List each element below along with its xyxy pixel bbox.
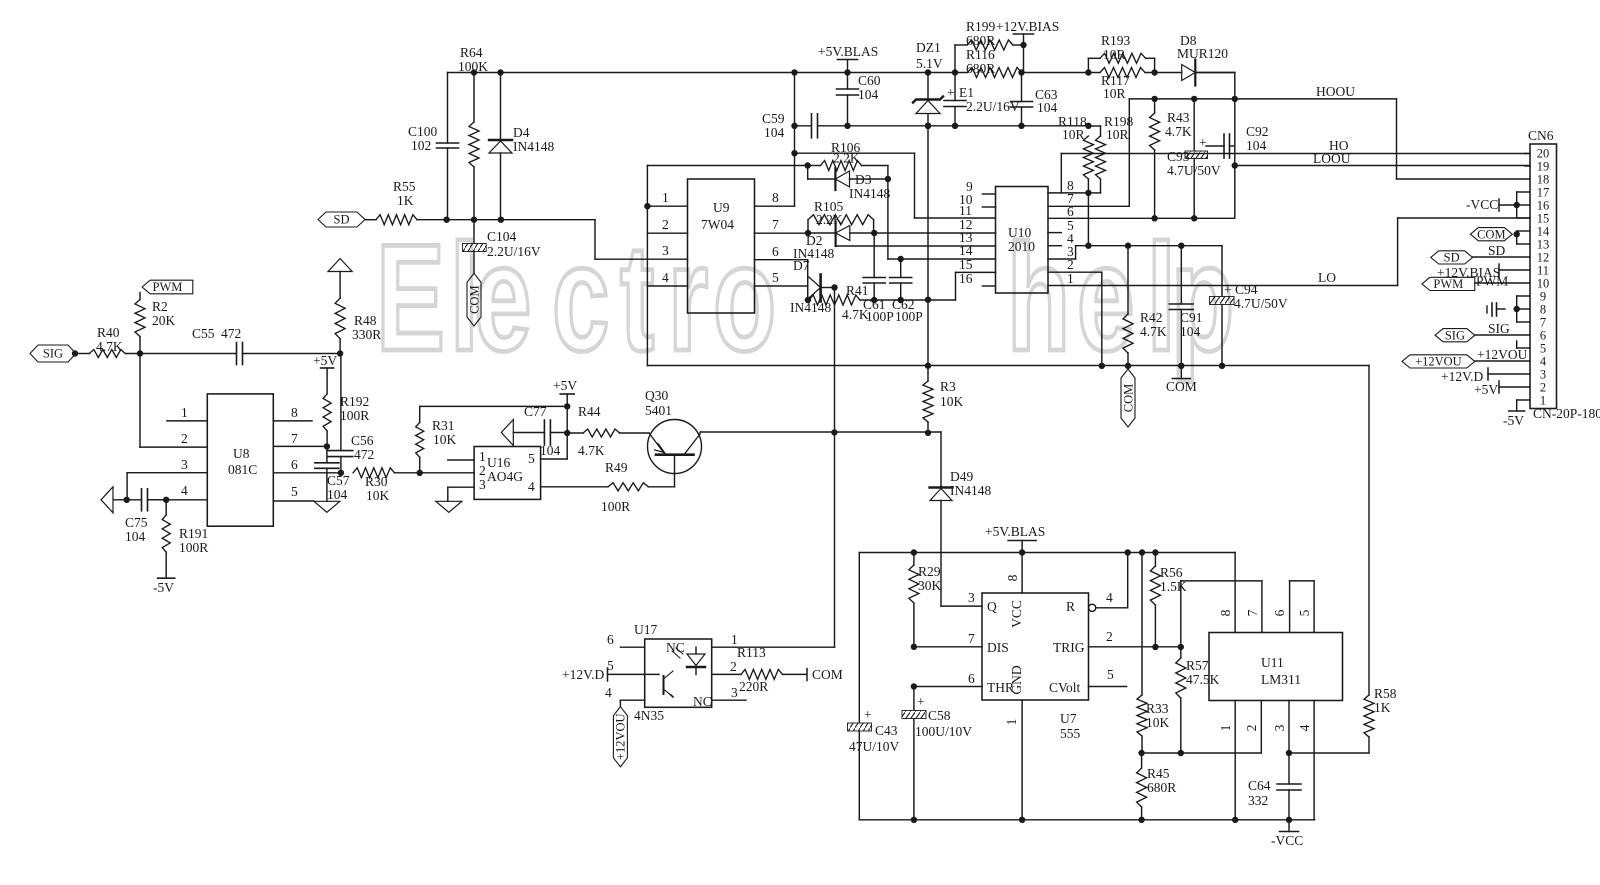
wire LO to CN6 pin15: [1398, 218, 1530, 286]
svg-text:10K: 10K: [433, 432, 457, 447]
svg-text:9: 9: [1540, 290, 1546, 304]
connector CN6 box: [1528, 128, 1600, 421]
svg-text:R49: R49: [605, 460, 628, 475]
svg-text:R113: R113: [737, 645, 766, 660]
svg-text:5.1V: 5.1V: [916, 56, 943, 71]
tag COM CN6: [1470, 227, 1530, 244]
svg-text:U16: U16: [487, 455, 510, 470]
U8 pin 2: [140, 354, 207, 448]
wire Q30 collector out: [699, 432, 702, 433]
svg-text:102: 102: [411, 138, 431, 153]
svg-text:10: 10: [1537, 277, 1550, 291]
CN6 pin 14 number: [1537, 225, 1550, 239]
svg-text:U10: U10: [1008, 225, 1031, 240]
svg-text:C92: C92: [1246, 124, 1269, 139]
svg-text:17: 17: [1537, 186, 1550, 200]
svg-text:R41: R41: [846, 283, 869, 298]
wire R41 to U10 pin15: [956, 272, 996, 300]
U7 pin 7 DIS: [911, 631, 982, 650]
tag PWM: [142, 280, 193, 294]
svg-text:100P: 100P: [866, 309, 894, 324]
svg-text:20K: 20K: [152, 313, 176, 328]
svg-text:SD: SD: [1444, 251, 1460, 265]
op-amp U8 box: [207, 394, 273, 526]
svg-text:2: 2: [1244, 725, 1259, 732]
wire U9 frame left: [647, 166, 807, 366]
svg-text:100R: 100R: [179, 540, 208, 555]
svg-text:R56: R56: [1160, 565, 1183, 580]
svg-text:AO4G: AO4G: [487, 469, 523, 484]
CN6 pin 3 number: [1540, 368, 1546, 382]
resistor R48: [328, 259, 381, 357]
tag SD CN6: [1431, 243, 1530, 265]
wire R58 bottom link: [1289, 737, 1369, 753]
svg-text:COM: COM: [1121, 384, 1135, 412]
U17 pin 1: [712, 632, 835, 647]
svg-text:R193: R193: [1101, 33, 1131, 48]
svg-text:t: t: [620, 212, 654, 383]
wire D2 to U10 pin12: [874, 232, 995, 234]
CN6 pin 1 number: [1540, 394, 1546, 408]
svg-text:SIG: SIG: [43, 347, 63, 361]
wire +5V.BLAS bus 555: [859, 549, 1235, 555]
U9 pin 4: [647, 270, 687, 286]
wire R118 column: [1087, 193, 1089, 246]
svg-text:10K: 10K: [366, 488, 390, 503]
svg-text:2: 2: [1067, 257, 1074, 272]
svg-text:C58: C58: [928, 708, 951, 723]
resistor R105: [808, 199, 874, 233]
svg-text:4: 4: [1106, 590, 1113, 605]
svg-text:12: 12: [1537, 251, 1550, 265]
svg-text:R42: R42: [1140, 310, 1163, 325]
resistor R31: [416, 403, 571, 473]
svg-text:4: 4: [181, 483, 188, 498]
svg-text:U17: U17: [634, 622, 657, 637]
capacitor C62: [890, 256, 923, 324]
svg-text:10K: 10K: [940, 394, 964, 409]
svg-text:10R: 10R: [1062, 127, 1085, 142]
svg-text:4: 4: [605, 685, 612, 700]
diode D3: [808, 166, 891, 202]
svg-text:R58: R58: [1374, 686, 1397, 701]
U8 pin 4: [149, 483, 207, 500]
U10 pin 13: [959, 230, 973, 245]
U8 pin 1: [167, 405, 207, 421]
svg-text:14: 14: [959, 243, 973, 258]
resistor R43: [1150, 99, 1192, 218]
svg-text:7: 7: [291, 431, 298, 446]
svg-text:COM: COM: [1166, 379, 1197, 394]
wire top bus: [448, 72, 1235, 74]
junction R118 R198: [1085, 190, 1091, 249]
svg-text:2010: 2010: [1008, 239, 1035, 254]
svg-text:D7: D7: [793, 258, 810, 273]
svg-text:SD: SD: [334, 213, 350, 227]
svg-text:104: 104: [540, 443, 561, 458]
svg-text:E: E: [376, 212, 445, 383]
svg-text:4.7U/50V: 4.7U/50V: [1167, 163, 1221, 178]
CN6 pin20 wire: [1525, 153, 1530, 155]
svg-text:220R: 220R: [739, 679, 768, 694]
optocoupler U17 box: [634, 622, 712, 723]
svg-text:1: 1: [662, 190, 669, 205]
svg-text:+5V: +5V: [1474, 382, 1498, 397]
CN6 pins 9 8 7 bracket: [1487, 296, 1530, 322]
tag SD: [318, 212, 365, 227]
svg-text:4.7U/50V: 4.7U/50V: [1234, 296, 1288, 311]
svg-text:R3: R3: [940, 379, 956, 394]
svg-text:3: 3: [968, 590, 975, 605]
svg-text:1: 1: [479, 449, 486, 464]
svg-text:16: 16: [1537, 199, 1550, 213]
svg-text:6: 6: [291, 457, 298, 472]
U11 pin 8: [1218, 553, 1235, 633]
svg-text:5: 5: [1107, 667, 1114, 682]
wire COM bus: [647, 363, 1369, 369]
resistor R33: [1137, 553, 1170, 754]
svg-text:10K: 10K: [1146, 715, 1170, 730]
svg-text:LO: LO: [1318, 270, 1336, 285]
U10 pin 12: [959, 217, 973, 232]
U11 pins 6 5 bridge: [1272, 581, 1314, 633]
svg-text:4: 4: [1297, 724, 1312, 731]
resistor R29: [909, 553, 942, 647]
U9 pin 7: [755, 217, 809, 233]
svg-text:D3: D3: [855, 172, 872, 187]
U10 pin 15: [959, 257, 973, 272]
svg-text:LM311: LM311: [1261, 672, 1301, 687]
svg-text:4: 4: [662, 270, 669, 285]
svg-text:100U/10V: 100U/10V: [915, 724, 972, 739]
svg-text:COM: COM: [1477, 227, 1505, 241]
svg-text:HOOU: HOOU: [1316, 84, 1355, 99]
tag +12VOU vertical: [613, 707, 627, 767]
svg-text:2: 2: [479, 463, 486, 478]
op-amp U9 box: [688, 179, 755, 313]
svg-text:3: 3: [731, 685, 738, 700]
svg-text:R199: R199: [966, 19, 996, 34]
svg-text:R57: R57: [1186, 658, 1209, 673]
svg-text:7: 7: [772, 217, 779, 232]
svg-text:CN6: CN6: [1528, 128, 1554, 143]
U9 pin 1: [644, 190, 687, 209]
capacitor E1: [944, 73, 1020, 126]
svg-text:Q30: Q30: [645, 388, 668, 403]
U16 pin 5: [541, 458, 568, 460]
svg-text:104: 104: [764, 125, 785, 140]
resistor R198: [1088, 114, 1133, 193]
svg-text:10R: 10R: [1103, 86, 1126, 101]
diode D49: [930, 469, 992, 606]
CN6 pin11 +12V.BIAS: [1437, 264, 1530, 280]
svg-text:6: 6: [1272, 609, 1287, 616]
CN6 pin 4 number: [1540, 355, 1547, 369]
capacitor C57: [315, 446, 350, 502]
svg-text:1: 1: [1067, 271, 1074, 286]
CN6 pin 12 number: [1537, 251, 1550, 265]
capacitor C55: [140, 326, 340, 365]
svg-text:DZ1: DZ1: [916, 40, 941, 55]
svg-text:19: 19: [1537, 160, 1550, 174]
capacitor C75: [101, 487, 169, 544]
svg-text:SIG: SIG: [1488, 321, 1510, 336]
U11 pin 3 / C64: [1248, 701, 1301, 820]
power +5V.BLAS: [818, 44, 878, 73]
svg-text:+12V.BIAS: +12V.BIAS: [996, 19, 1059, 34]
power -5V: [153, 578, 175, 595]
svg-text:C56: C56: [351, 433, 374, 448]
U8 pin 6: [273, 457, 344, 476]
svg-text:C55: C55: [192, 326, 215, 341]
wire SD net: [417, 217, 688, 260]
U11 pin 2: [1244, 701, 1261, 754]
U10 pin 6: [1048, 204, 1235, 222]
resistor R56: [1150, 553, 1186, 647]
diode D7: [790, 258, 838, 315]
svg-text:332: 332: [1248, 793, 1268, 808]
svg-text:13: 13: [1537, 238, 1550, 252]
svg-text:4.7K: 4.7K: [1140, 324, 1167, 339]
resistor R3: [923, 366, 964, 433]
svg-text:5401: 5401: [645, 403, 672, 418]
svg-text:C43: C43: [875, 723, 898, 738]
CN6 pin3 +12V.D: [1441, 368, 1530, 384]
U7 pin 2 TRIG: [1089, 629, 1185, 650]
svg-text:C104: C104: [487, 229, 517, 244]
watermark Electro help: [376, 212, 1234, 383]
svg-text:3: 3: [662, 243, 669, 258]
svg-text:+: +: [917, 694, 925, 709]
svg-text:104: 104: [1037, 100, 1058, 115]
svg-text:PWM: PWM: [1433, 277, 1463, 291]
svg-text:SIG: SIG: [1445, 328, 1465, 342]
svg-text:-5V: -5V: [1503, 413, 1524, 428]
capacitor C43: [848, 553, 900, 820]
svg-text:+12VOU: +12VOU: [1477, 347, 1528, 362]
resistor R199: [955, 19, 1027, 73]
diode D8: [1177, 33, 1235, 86]
wire D3 to U10 pin14: [888, 179, 996, 259]
resistor R45: [1137, 753, 1177, 820]
svg-text:2: 2: [1106, 629, 1113, 644]
svg-text:LOOU: LOOU: [1313, 151, 1351, 166]
svg-text:-VCC: -VCC: [1271, 833, 1303, 848]
svg-text:7W04: 7W04: [701, 217, 734, 232]
CN6 pin 18 number: [1537, 173, 1550, 187]
svg-text:555: 555: [1060, 726, 1081, 741]
U7 pin 8 VCC: [1005, 553, 1022, 594]
svg-text:E1: E1: [959, 85, 974, 100]
CN6 pin 13 number: [1537, 238, 1550, 252]
capacitor C61: [863, 233, 894, 324]
resistor R118: [1058, 114, 1093, 193]
U11 pin 4: [1297, 701, 1314, 820]
svg-text:+12VOU: +12VOU: [614, 713, 628, 760]
CN6 pin 2 number: [1540, 381, 1546, 395]
CN6 pin1 -5V: [1503, 400, 1530, 428]
svg-text:+5V: +5V: [553, 378, 577, 393]
CN6 pin 19 number: [1537, 160, 1550, 174]
tag SIG: [30, 345, 78, 362]
transistor Q30: [645, 388, 702, 487]
svg-text:VCC: VCC: [1009, 600, 1024, 628]
svg-text:R29: R29: [918, 564, 941, 579]
svg-text:8: 8: [772, 190, 779, 205]
wire -5VCC bottom bus: [859, 817, 1314, 823]
capacitor C94: [1210, 246, 1288, 366]
svg-text:R45: R45: [1147, 766, 1170, 781]
U10 pin 9: [966, 179, 996, 194]
svg-text:100R: 100R: [340, 408, 369, 423]
svg-text:C60: C60: [858, 73, 881, 88]
svg-text:3: 3: [479, 477, 486, 492]
CN6 pin 17 number: [1537, 186, 1550, 200]
svg-text:MUR120: MUR120: [1177, 46, 1228, 61]
svg-text:3: 3: [181, 457, 188, 472]
U10 pin 1 LO wire: [1048, 270, 1398, 286]
svg-text:15: 15: [1537, 212, 1550, 226]
comparator U11 box: [1209, 633, 1343, 701]
svg-text:C93: C93: [1167, 149, 1190, 164]
svg-text:D4: D4: [513, 125, 530, 140]
svg-text:2: 2: [1540, 381, 1546, 395]
capacitor C92: [1206, 124, 1269, 158]
tag COM vertical: [467, 273, 481, 326]
power +5V U16: [553, 378, 577, 459]
CN6 pin2 +5V: [1474, 381, 1530, 397]
resistor R116: [966, 47, 1022, 78]
svg-text:IN4148: IN4148: [513, 139, 554, 154]
svg-text:R191: R191: [179, 526, 208, 541]
U17 pin 5: [562, 658, 645, 682]
svg-text:+5V.BLAS: +5V.BLAS: [818, 44, 878, 59]
svg-text:TRIG: TRIG: [1053, 640, 1085, 655]
U9 pin 3: [662, 243, 669, 258]
svg-text:47U/10V: 47U/10V: [849, 739, 900, 754]
svg-text:-VCC: -VCC: [1466, 197, 1498, 212]
ground arrow under C57: [314, 501, 340, 512]
CN6 pin 9 number: [1540, 290, 1546, 304]
capacitor C104: [462, 220, 540, 274]
gate driver U16 box: [474, 447, 540, 500]
U17 pin 4: [605, 685, 645, 707]
svg-text:6: 6: [607, 632, 614, 647]
U8 pin 5: [273, 484, 314, 501]
svg-text:+: +: [1224, 282, 1232, 297]
svg-text:330R: 330R: [352, 327, 381, 342]
wire to U10 pin13: [836, 245, 996, 247]
resistor R42: [1123, 246, 1167, 366]
resistor R40: [76, 325, 140, 358]
svg-text:5: 5: [772, 270, 779, 285]
svg-text:11: 11: [959, 203, 972, 218]
svg-text:2.2K: 2.2K: [833, 151, 860, 166]
zener diode DZ1: [913, 40, 943, 126]
svg-text:5: 5: [607, 658, 614, 673]
svg-text:1: 1: [1540, 394, 1546, 408]
resistor R117: [1100, 68, 1145, 102]
wire HO: [1061, 138, 1530, 154]
svg-text:R40: R40: [97, 325, 120, 340]
svg-text:6: 6: [772, 244, 779, 259]
U9 pin 8: [755, 190, 795, 206]
svg-text:081C: 081C: [228, 462, 257, 477]
svg-text:R30: R30: [365, 474, 388, 489]
capacitor C59: [762, 111, 1092, 140]
resistor R49: [541, 460, 675, 514]
svg-text:Q: Q: [987, 599, 997, 614]
svg-text:680R: 680R: [966, 61, 995, 76]
svg-text:5: 5: [1297, 609, 1312, 616]
svg-text:U7: U7: [1060, 711, 1077, 726]
svg-text:30K: 30K: [918, 578, 942, 593]
svg-text:D49: D49: [950, 469, 973, 484]
timer U7 box: [982, 593, 1089, 741]
U16 pin 3: [448, 487, 474, 501]
capacitor C93: [1167, 99, 1221, 218]
U17 pin 3 NC: [693, 685, 746, 709]
U8 pin 8: [273, 405, 312, 421]
svg-text:6: 6: [1067, 204, 1074, 219]
svg-text:100P: 100P: [895, 309, 923, 324]
svg-text:R55: R55: [393, 179, 416, 194]
svg-text:R33: R33: [1146, 701, 1169, 716]
junction SIG node: [137, 350, 143, 356]
tag SIG CN6: [1435, 321, 1530, 342]
U10 pin 11: [959, 203, 972, 218]
CN6 pin 5 number: [1540, 342, 1546, 356]
resistor R57: [1176, 647, 1220, 753]
svg-text:C59: C59: [762, 111, 785, 126]
svg-text:3: 3: [1272, 724, 1287, 731]
svg-text:IN4148: IN4148: [950, 483, 991, 498]
svg-text:8: 8: [1540, 303, 1546, 317]
svg-text:NC: NC: [666, 640, 685, 655]
svg-text:GND: GND: [1009, 665, 1024, 694]
svg-text:+12V.D: +12V.D: [562, 667, 604, 682]
svg-text:10R: 10R: [1103, 47, 1126, 62]
ground arrow U16 pin3: [436, 501, 462, 512]
U10 pin 2: [1048, 257, 1102, 366]
svg-text:1: 1: [181, 405, 188, 420]
CN6 pin 10 number: [1537, 277, 1550, 291]
svg-text:4: 4: [1540, 355, 1547, 369]
svg-text:1: 1: [1004, 719, 1019, 726]
svg-text:NC: NC: [693, 694, 712, 709]
svg-text:U9: U9: [713, 200, 730, 215]
CN6 pin5 wire: [1517, 341, 1530, 348]
svg-text:+5V: +5V: [313, 353, 337, 368]
wire opto to R41 column: [834, 288, 836, 648]
capacitor C91: [1169, 246, 1202, 366]
svg-text:+: +: [1199, 135, 1207, 150]
svg-text:+: +: [947, 85, 955, 100]
svg-text:R2: R2: [152, 299, 168, 314]
svg-text:680R: 680R: [1147, 780, 1176, 795]
svg-text:2.2K: 2.2K: [816, 212, 843, 227]
wire U9 pin8 riser: [791, 73, 797, 207]
wire HOOU: [1129, 84, 1530, 179]
ground -VCC: [1271, 820, 1303, 848]
svg-text:3: 3: [1540, 368, 1546, 382]
U9 pin 6: [755, 244, 808, 260]
power +5V R192: [313, 353, 337, 394]
CN6 pin 16 number: [1537, 199, 1550, 213]
resistor R106: [805, 140, 888, 179]
U7 pin 4 R: [1089, 553, 1128, 612]
svg-text:CN-20P-180: CN-20P-180: [1533, 406, 1600, 421]
